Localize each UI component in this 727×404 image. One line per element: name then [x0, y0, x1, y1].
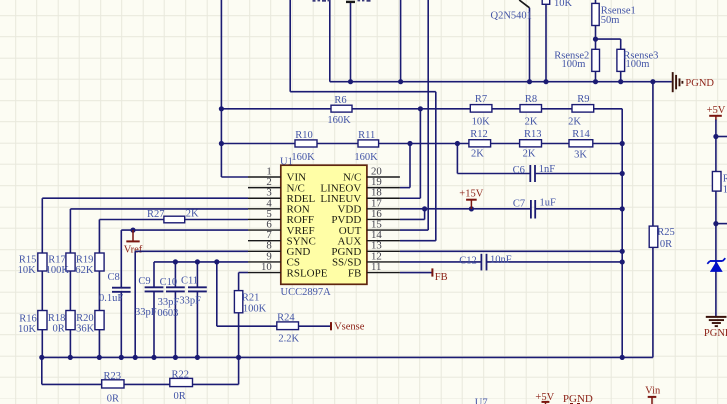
- svg-text:10K: 10K: [554, 0, 573, 9]
- pin 14 AUX: [337, 229, 399, 247]
- svg-text:R16: R16: [19, 314, 37, 325]
- svg-text:C8: C8: [107, 272, 119, 283]
- capacitor C11 33pF: [188, 262, 207, 358]
- label PGND (bottom right): [704, 328, 727, 339]
- wire R17-R18 link: [69, 271, 71, 357]
- value 33pF (C10): [158, 297, 180, 308]
- pin 1 VIN: [248, 165, 306, 183]
- designator U1: [280, 157, 293, 168]
- node junction R6 row on VIN column: [219, 106, 224, 111]
- svg-text:R14: R14: [572, 129, 590, 140]
- resistor R14 3K: [569, 140, 593, 147]
- wire VIN net vertical from top to pin 1: [221, 0, 248, 177]
- value 1nF (C6): [539, 164, 556, 175]
- label C8: [107, 272, 119, 283]
- power port +15V: [459, 188, 483, 209]
- capacitor C6 1nF: [530, 165, 535, 182]
- value 2K (R27): [186, 209, 199, 220]
- power port Vsense: [331, 321, 365, 332]
- pin 12 SS/SD: [332, 250, 400, 268]
- svg-text:10K: 10K: [18, 324, 37, 335]
- svg-text:0R: 0R: [52, 324, 64, 335]
- node junction pin19 branch on R10 row: [407, 141, 412, 146]
- svg-text:0.1uF: 0.1uF: [99, 293, 123, 304]
- wire Rsense2/Rsense3 top tie: [596, 39, 621, 49]
- svg-text:2K: 2K: [471, 148, 484, 159]
- pin 20 N/C: [343, 165, 400, 183]
- ground PGND (bottom right): [706, 317, 727, 326]
- value 100m (Rsense2): [562, 59, 586, 70]
- value 36K (R20): [76, 324, 95, 335]
- resistor Rsense2 100m: [592, 49, 600, 81]
- wire PGND pin 13 row to right bus: [400, 250, 622, 252]
- value 0R (R18): [52, 324, 64, 335]
- power port FB: [432, 268, 447, 283]
- resistor R21 100K: [234, 291, 242, 313]
- label Rsense3: [623, 50, 658, 61]
- svg-text:C9: C9: [138, 276, 150, 287]
- node junction pin12 row meets right bus: [620, 259, 625, 264]
- node junction Vref port on pin6 row: [130, 228, 135, 233]
- wire CS to R24/Vsense: [217, 262, 331, 326]
- note 0603 (C10): [157, 308, 178, 319]
- capacitor C8 0.1uF: [112, 288, 131, 292]
- zener diode D (blue): [707, 258, 725, 272]
- svg-text:RSLOPE: RSLOPE: [287, 267, 328, 279]
- label R17: [48, 255, 66, 266]
- svg-text:R15: R15: [19, 255, 37, 266]
- value 0R (R25): [660, 239, 672, 250]
- pin 7 SYNC: [248, 229, 316, 247]
- svg-text:Vin: Vin: [645, 385, 661, 396]
- wire LINEOV pin 19 branch: [400, 144, 410, 188]
- node junction VDD/PVDD tie: [422, 206, 427, 211]
- label R25: [657, 227, 675, 238]
- label Rsense1: [601, 6, 636, 17]
- svg-text:100m: 100m: [562, 59, 586, 70]
- svg-text:Q2N5401: Q2N5401: [491, 11, 532, 22]
- node junction C6 row meets right bus: [620, 171, 625, 176]
- svg-text:R22: R22: [172, 370, 190, 381]
- resistor R15 10K: [38, 253, 47, 271]
- capacitor C7 1uF: [531, 200, 535, 219]
- node junction C11 on CS row: [195, 259, 200, 264]
- wire R22/R23 jumper loop: [42, 357, 239, 384]
- svg-text:Vref: Vref: [124, 244, 143, 255]
- svg-text:160K: 160K: [354, 152, 378, 163]
- svg-text:Vsense: Vsense: [334, 321, 365, 332]
- svg-text:33pF: 33pF: [179, 296, 201, 307]
- label Rsense2: [554, 50, 589, 61]
- node junction C10 on CS row: [173, 259, 178, 264]
- label R23: [103, 371, 121, 382]
- wire +5V column: [716, 120, 727, 172]
- label R19: [76, 255, 94, 266]
- resistor R18 0R: [66, 311, 75, 330]
- pin 10 RSLOPE: [248, 261, 328, 279]
- wire VDD pin 17 row to C7 and right bus: [400, 208, 622, 210]
- resistor R11 160K: [358, 140, 379, 147]
- wire AUX pin 14 route up and left to top: [290, 0, 436, 241]
- node junction R24 branch on CS row: [214, 259, 219, 264]
- svg-text:0603: 0603: [157, 308, 178, 319]
- svg-text:0R: 0R: [107, 394, 119, 404]
- svg-text:2K: 2K: [525, 117, 538, 128]
- svg-text:100K: 100K: [243, 304, 267, 315]
- wire LINEUV pin 18 branch: [400, 109, 421, 198]
- capacitor C10 33pF 0603: [166, 262, 185, 358]
- resistor R27 2K: [164, 216, 185, 223]
- resistor R13 2K: [520, 140, 542, 147]
- svg-text:1nF: 1nF: [539, 164, 556, 175]
- svg-text:PGND: PGND: [704, 328, 727, 339]
- wire CS pin 9 row: [154, 261, 248, 263]
- resistor Rsense1 50m: [592, 0, 599, 49]
- svg-text:36K: 36K: [76, 324, 95, 335]
- svg-text:10K: 10K: [18, 265, 37, 276]
- resistor R23 0R: [102, 380, 124, 388]
- svg-text:R13: R13: [524, 129, 542, 140]
- power port +5V (right): [707, 105, 726, 121]
- svg-text:C6: C6: [513, 165, 525, 176]
- node junction zener column branch: [713, 221, 718, 226]
- node junction R10 row on VIN column: [219, 141, 224, 146]
- resistor R19 62K: [95, 253, 104, 271]
- pin 18 LINEUV: [320, 187, 400, 205]
- value 10K (R16): [18, 324, 37, 335]
- svg-text:R27: R27: [147, 209, 165, 220]
- node junction top rail x400: [398, 79, 403, 84]
- power port Vin (bottom, clipped): [645, 385, 661, 404]
- resistor R12 2K: [469, 140, 491, 147]
- resistor R6 160K: [331, 105, 352, 112]
- svg-text:UCC2897A: UCC2897A: [281, 287, 332, 298]
- pin 9 CS: [248, 250, 300, 268]
- pin 11 FB: [348, 261, 400, 279]
- node junction +15V on VDD row: [469, 206, 474, 211]
- resistor R22 0R: [170, 378, 193, 386]
- svg-text:PGND: PGND: [685, 78, 714, 89]
- clipped designator text bottoms at top edge: [313, 0, 371, 2]
- label PGND (bottom center, clipped): [563, 393, 593, 404]
- svg-text:100K: 100K: [46, 265, 70, 276]
- pin 5 ROFF: [248, 208, 314, 226]
- clipped designator (right edge resistor): [723, 173, 727, 195]
- svg-text:R18: R18: [48, 313, 66, 324]
- label R6: [334, 95, 346, 106]
- label R8: [525, 94, 537, 105]
- node junction top rail R25 column: [650, 79, 655, 84]
- designator U7 (clipped at bottom): [475, 397, 488, 404]
- wire RSLOPE pin 10 row through R21: [239, 273, 248, 358]
- svg-text:10K: 10K: [472, 117, 491, 128]
- svg-text:+5V: +5V: [707, 105, 726, 116]
- label R10: [295, 130, 313, 141]
- node junction top rail 10K column: [543, 79, 548, 84]
- wire R19-R20 link: [98, 271, 100, 357]
- svg-text:R25: R25: [657, 227, 675, 238]
- label C7: [513, 199, 525, 210]
- value 33pF (C9): [135, 307, 157, 318]
- wire RON pin 4 row from R17 column: [70, 209, 248, 253]
- wire R10..R14 row (LINEUV divider): [221, 143, 622, 145]
- resistor R20 36K: [95, 311, 104, 330]
- power port +5V (bottom, clipped): [535, 392, 554, 404]
- label R11: [358, 130, 375, 141]
- wire RDEL pin 3 row from R15 column: [42, 198, 248, 253]
- pin 6 VREF: [248, 219, 315, 237]
- svg-text:1uF: 1uF: [540, 198, 557, 209]
- value 62K (R19): [75, 265, 94, 276]
- resistor R24 2.2K: [277, 322, 299, 330]
- svg-text:R6: R6: [334, 95, 346, 106]
- svg-text:2.2K: 2.2K: [278, 334, 299, 345]
- value 100m (Rsense3): [626, 59, 650, 70]
- node junction R14 row meets right bus: [620, 141, 625, 146]
- wire column x350 from clipped component: [350, 2, 352, 82]
- svg-text:C10: C10: [160, 277, 178, 288]
- wire R6/R7/R8/R9 row (LINEOV divider top): [221, 108, 622, 110]
- svg-text:R21: R21: [242, 293, 260, 304]
- value 2K (R8): [525, 117, 538, 128]
- value 2K (R13): [523, 148, 536, 159]
- label R13: [524, 129, 542, 140]
- resistor right edge (clipped label): [712, 172, 721, 192]
- svg-text:10: 10: [723, 184, 727, 195]
- node junction pin18 branch on R7 row: [418, 106, 423, 111]
- svg-text:2K: 2K: [186, 209, 199, 220]
- wire SS/SD pin 12 row through C12 to right bus: [400, 261, 622, 263]
- node junction pin13 row meets right bus: [620, 249, 625, 254]
- wire R15-R16 link: [41, 271, 43, 357]
- resistor 10K (clipped at top edge): [542, 0, 550, 82]
- label C10: [160, 277, 178, 288]
- svg-text:PGND: PGND: [563, 393, 593, 404]
- svg-text:R24: R24: [277, 312, 295, 323]
- wire bottom ground rail: [42, 356, 653, 358]
- label R18: [48, 313, 66, 324]
- label C11: [181, 276, 198, 287]
- label R14: [572, 129, 590, 140]
- label R22: [172, 370, 190, 381]
- label R16: [19, 314, 37, 325]
- svg-text:C11: C11: [181, 276, 198, 287]
- value 2K (R9): [568, 117, 581, 128]
- svg-text:R20: R20: [76, 313, 94, 324]
- label R12: [470, 129, 488, 140]
- value 10K (R15): [18, 265, 37, 276]
- value 50m: [601, 15, 620, 26]
- pin 19 LINEOV: [320, 176, 400, 194]
- label R15: [19, 255, 37, 266]
- svg-text:R10: R10: [295, 130, 313, 141]
- resistor R9 2K: [572, 105, 594, 113]
- pin 3 RDEL: [248, 187, 316, 205]
- svg-text:C7: C7: [513, 199, 525, 210]
- PGND power ground symbol (top rail, sideways): [673, 72, 683, 92]
- svg-text:FB: FB: [435, 272, 448, 283]
- node junctions bottom rail: [39, 355, 625, 360]
- value 160K (R6): [327, 115, 351, 126]
- svg-text:33pF: 33pF: [158, 297, 180, 308]
- wire FB pin 11 to FB port: [400, 272, 433, 274]
- svg-text:50m: 50m: [601, 15, 620, 26]
- label C12: [459, 255, 477, 266]
- node junction C7 row meets right bus: [620, 206, 625, 211]
- resistor R17 100K: [66, 253, 75, 271]
- value 100K (R21): [243, 304, 267, 315]
- node junction Rsense1 bottom / Rsense2-3 top: [593, 37, 598, 42]
- op-amp U1 UCC2897A body: [281, 165, 367, 284]
- label R21: [242, 293, 260, 304]
- svg-text:+15V: +15V: [459, 188, 483, 199]
- value 10nF (C12): [490, 255, 512, 266]
- svg-text:U1: U1: [280, 157, 293, 168]
- svg-text:R11: R11: [358, 130, 375, 141]
- wire R25 column from top rail to bottom rail: [652, 82, 654, 358]
- label C9: [138, 276, 150, 287]
- svg-text:R23: R23: [103, 371, 121, 382]
- wire ROFF pin 5 row from R19 column through R27: [99, 220, 248, 254]
- svg-text:FB: FB: [348, 267, 361, 279]
- svg-text:0R: 0R: [173, 391, 185, 402]
- power port Vref: [124, 230, 143, 255]
- label Q2N5401: [491, 11, 532, 22]
- resistor R10 160K: [295, 140, 317, 147]
- svg-text:160K: 160K: [327, 115, 351, 126]
- svg-text:C12: C12: [459, 255, 477, 266]
- wire OUT pin 15 vertical to top: [400, 0, 428, 230]
- svg-text:R9: R9: [577, 94, 589, 105]
- value 2K (R12): [471, 148, 484, 159]
- value 0R (R23): [107, 394, 119, 404]
- svg-text:R2: R2: [723, 173, 727, 184]
- svg-text:R7: R7: [475, 94, 487, 105]
- clipped component terminal bar at top edge: [346, 1, 355, 3]
- pin 17 VDD: [337, 197, 399, 215]
- value 100K (R17): [46, 265, 70, 276]
- pin 16 PVDD: [331, 208, 400, 226]
- value 160K (R11): [354, 152, 378, 163]
- svg-text:R19: R19: [76, 255, 94, 266]
- wire PVDD pin 16 branch: [400, 209, 425, 220]
- svg-text:2K: 2K: [523, 148, 536, 159]
- value 10K (R7): [472, 117, 491, 128]
- node junction top rail x350: [348, 79, 353, 84]
- label R24: [277, 312, 295, 323]
- pin 2 N/C: [248, 176, 305, 194]
- value 1uF (C7): [540, 198, 557, 209]
- wire branch right at y224: [716, 223, 727, 225]
- resistor R16 10K: [38, 311, 47, 330]
- node junction C6 branch on R12 row: [455, 141, 460, 146]
- value 3K (R14): [574, 149, 587, 160]
- label R9: [577, 94, 589, 105]
- capacitor C9 33pF: [145, 262, 164, 358]
- svg-text:R12: R12: [470, 129, 488, 140]
- label C6: [513, 165, 525, 176]
- transistor Q2N5401 emitter (clipped at top): [519, 0, 529, 82]
- resistor Rsense3 100m: [617, 49, 625, 81]
- svg-text:160K: 160K: [291, 152, 315, 163]
- part number UCC2897A: [281, 287, 332, 298]
- value 0.1uF (C8): [99, 293, 123, 304]
- label PGND (top rail): [685, 78, 714, 89]
- svg-text:100m: 100m: [626, 59, 650, 70]
- svg-text:R8: R8: [525, 94, 537, 105]
- node junction +5V column branch: [713, 134, 718, 139]
- node junction top rail Rsense2: [593, 79, 598, 84]
- label R27: [147, 209, 165, 220]
- wire right column to zener: [715, 191, 717, 316]
- pin 13 PGND: [331, 240, 400, 258]
- wire column x400 from top: [400, 0, 402, 82]
- value 10K (top right, clipped): [554, 0, 573, 9]
- svg-text:11: 11: [371, 261, 381, 273]
- pin 4 RON: [248, 197, 310, 215]
- value 33pF (C11): [179, 296, 201, 307]
- node junction top rail Q emitter: [527, 79, 532, 84]
- svg-text:10: 10: [261, 261, 272, 273]
- wire PGND top rail: [330, 0, 672, 82]
- wire C6 branch from R12 row: [457, 144, 622, 174]
- pin 15 OUT: [339, 219, 400, 237]
- node junction top rail Rsense3: [618, 79, 623, 84]
- resistor R7 10K: [470, 105, 492, 113]
- svg-text:2K: 2K: [568, 117, 581, 128]
- wire GND pin 8 row down to rail: [135, 251, 248, 357]
- value 0R (R22): [173, 391, 185, 402]
- wire VREF pin 6 row: [121, 230, 248, 357]
- value 160K (R10): [291, 152, 315, 163]
- value 2.2K (R24): [278, 334, 299, 345]
- wire right bus vertical (R9 corner down to bottom rail): [621, 109, 623, 358]
- label R20: [76, 313, 94, 324]
- svg-text:33pF: 33pF: [135, 307, 157, 318]
- svg-text:0R: 0R: [660, 239, 672, 250]
- svg-text:3K: 3K: [574, 149, 587, 160]
- svg-text:62K: 62K: [75, 265, 94, 276]
- capacitor C12 10nF: [481, 254, 486, 271]
- resistor R8 2K: [520, 105, 542, 113]
- svg-text:R17: R17: [48, 255, 66, 266]
- svg-text:10nF: 10nF: [490, 255, 512, 266]
- label R7: [475, 94, 487, 105]
- pin 8 GND: [248, 240, 310, 258]
- svg-text:U7: U7: [475, 397, 488, 404]
- resistor R25 0R: [649, 226, 658, 247]
